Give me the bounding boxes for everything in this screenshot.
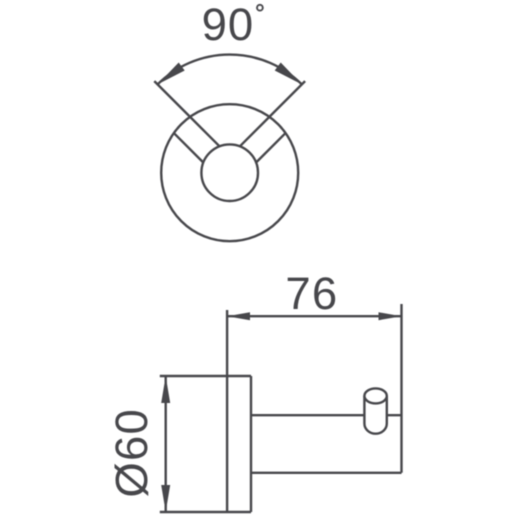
svg-text:76: 76 bbox=[285, 268, 338, 319]
svg-text:Ø60: Ø60 bbox=[106, 408, 157, 498]
svg-text:90: 90 bbox=[202, 0, 255, 50]
